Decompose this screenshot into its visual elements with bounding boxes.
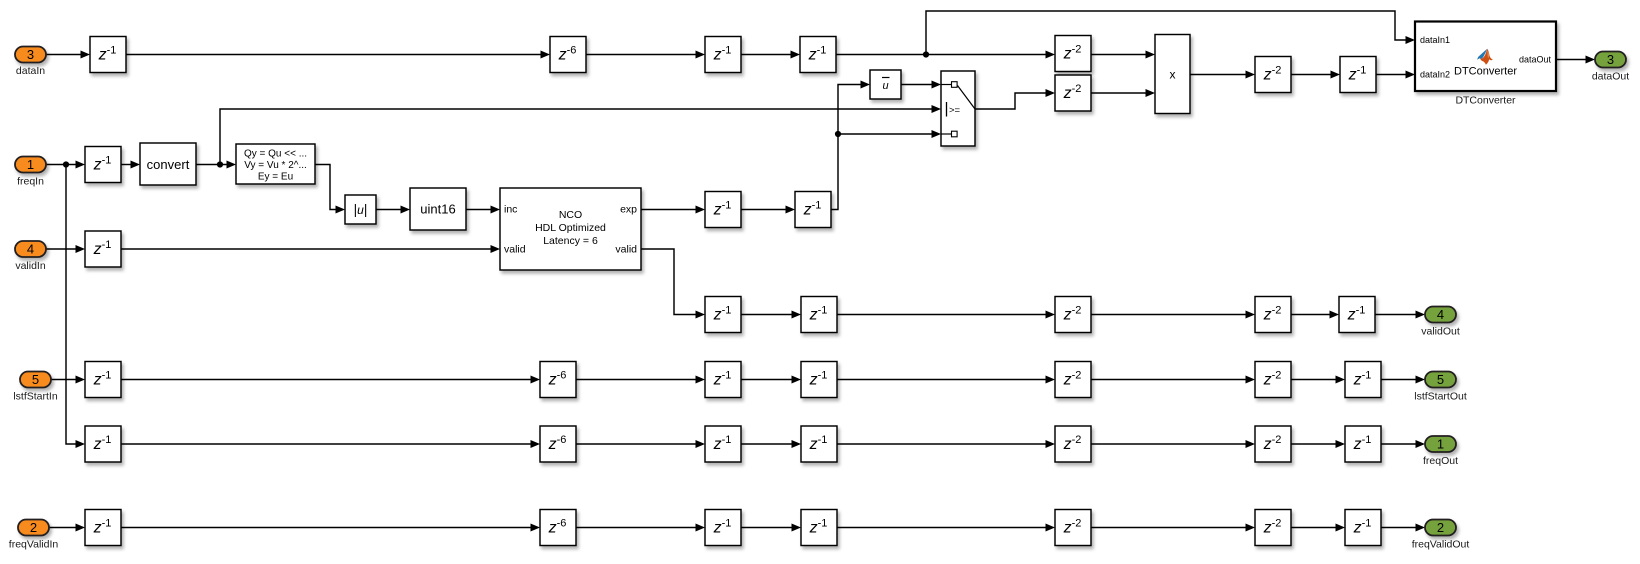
svg-text:Qy = Qu << ...: Qy = Qu << ... xyxy=(244,148,307,159)
svg-text:lstfStartOut: lstfStartOut xyxy=(1414,391,1467,403)
svg-text:Latency = 6: Latency = 6 xyxy=(543,235,598,247)
svg-text:uint16: uint16 xyxy=(420,202,455,217)
svg-text:3: 3 xyxy=(1607,52,1614,67)
svg-text:4: 4 xyxy=(1437,307,1444,322)
svg-text:validOut: validOut xyxy=(1421,326,1460,338)
svg-text:DTConverter: DTConverter xyxy=(1455,95,1516,107)
svg-text:dataOut: dataOut xyxy=(1519,55,1552,65)
svg-text:Ey = Eu: Ey = Eu xyxy=(258,172,293,183)
svg-text:freqIn: freqIn xyxy=(17,176,44,188)
svg-text:convert: convert xyxy=(147,157,190,172)
svg-text:2: 2 xyxy=(30,520,37,535)
svg-text:NCO: NCO xyxy=(559,209,582,221)
svg-text:HDL Optimized: HDL Optimized xyxy=(535,222,606,234)
svg-text:4: 4 xyxy=(27,242,34,257)
svg-text:x: x xyxy=(1170,68,1176,82)
svg-text:freqOut: freqOut xyxy=(1423,455,1458,467)
svg-text:valid: valid xyxy=(504,244,526,256)
svg-text:5: 5 xyxy=(32,372,39,387)
svg-text:dataIn1: dataIn1 xyxy=(1420,35,1450,45)
svg-text:3: 3 xyxy=(27,47,34,62)
svg-text:dataIn: dataIn xyxy=(16,65,45,77)
svg-text:dataOut: dataOut xyxy=(1592,71,1629,83)
svg-text:1: 1 xyxy=(1437,437,1444,452)
svg-text:validIn: validIn xyxy=(15,260,46,272)
svg-text:freqValidOut: freqValidOut xyxy=(1412,539,1470,551)
svg-text:dataIn2: dataIn2 xyxy=(1420,70,1450,80)
svg-text:|u|: |u| xyxy=(354,202,368,217)
svg-text:DTConverter: DTConverter xyxy=(1454,66,1517,78)
svg-text:Vy = Vu * 2^...: Vy = Vu * 2^... xyxy=(244,160,307,171)
svg-text:valid: valid xyxy=(615,244,637,256)
svg-text:1: 1 xyxy=(27,157,34,172)
svg-text:2: 2 xyxy=(1437,520,1444,535)
svg-text:lstfStartIn: lstfStartIn xyxy=(13,391,58,403)
svg-text:inc: inc xyxy=(504,204,517,216)
svg-text:>=: >= xyxy=(949,105,961,116)
svg-text:exp: exp xyxy=(620,204,637,216)
svg-text:5: 5 xyxy=(1437,372,1444,387)
svg-text:u: u xyxy=(882,80,888,92)
svg-text:freqValidIn: freqValidIn xyxy=(9,539,59,551)
